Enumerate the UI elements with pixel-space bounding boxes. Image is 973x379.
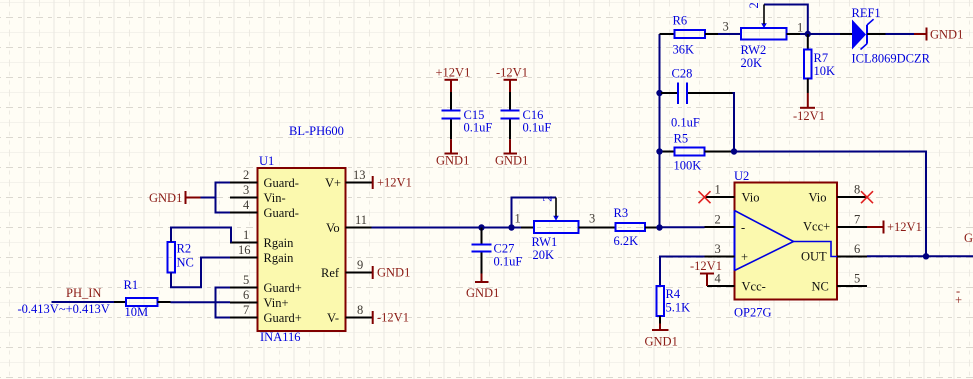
svg-text:2: 2 — [243, 168, 249, 182]
svg-text:3: 3 — [243, 183, 249, 197]
wire PH_IN to R1 — [52, 301, 115, 303]
wire C28 right down to R5 — [688, 92, 733, 94]
svg-text:+: + — [955, 293, 962, 307]
U2 pin 1 Vio — [705, 183, 760, 205]
IC U1 INA116 body — [258, 124, 346, 344]
junction at RW1 loop — [508, 224, 514, 230]
svg-text:-12V1: -12V1 — [496, 66, 528, 80]
U1 pin 4 Guard- — [230, 198, 299, 220]
resistor R2 (NC) — [168, 242, 194, 273]
svg-text:V-: V- — [327, 311, 339, 325]
potentiometer RW2 wiper stem — [763, 5, 765, 25]
capacitor C28 0.1uF — [671, 66, 700, 129]
svg-text:16: 16 — [238, 243, 251, 257]
op-amp U2 OP27G body — [734, 169, 837, 320]
svg-text:6: 6 — [243, 288, 249, 302]
svg-text:Vcc+: Vcc+ — [803, 220, 830, 234]
svg-text:-12V1: -12V1 — [690, 259, 722, 273]
svg-text:4: 4 — [243, 198, 250, 212]
wire feedback vertical — [659, 34, 661, 228]
power port +12V1 at U2 pin 7 — [867, 220, 922, 234]
junction R5/C28 right — [731, 148, 737, 154]
U1 pin 11 Vo — [326, 213, 372, 235]
svg-text:G: G — [964, 231, 973, 245]
U1 pin 3 Vin- — [230, 183, 286, 205]
svg-text:Guard-: Guard- — [264, 206, 299, 220]
power port GND1 below C27 — [466, 274, 499, 301]
power port -12V1 at U1 pin 8 — [373, 311, 409, 325]
U2 pin 6 OUT — [801, 242, 867, 264]
power port GND1 below C15 — [436, 139, 469, 167]
U1 pin 8 V- — [327, 303, 372, 325]
svg-text:20K: 20K — [533, 248, 555, 262]
wire Vo to RW1 — [372, 227, 522, 229]
U2 pin 7 Vcc+ — [803, 213, 867, 234]
power port -12V1 below R7 — [793, 93, 825, 123]
svg-text:BL-PH600: BL-PH600 — [289, 124, 344, 138]
svg-text:Vin-: Vin- — [264, 191, 286, 205]
svg-text:Vcc-: Vcc- — [742, 280, 766, 294]
svg-text:2: 2 — [541, 196, 555, 202]
junction R3 / feedback node — [656, 224, 662, 230]
junction OUT node — [923, 253, 929, 259]
svg-text:R5: R5 — [674, 131, 689, 145]
wire RW2 to REF1 node — [800, 33, 840, 35]
svg-text:GND1: GND1 — [149, 191, 182, 205]
svg-text:7: 7 — [854, 213, 860, 227]
resistor R6 36K — [660, 14, 719, 57]
capacitor C27 0.1uF — [472, 228, 523, 274]
svg-text:1: 1 — [243, 228, 249, 242]
resistor R1 10M — [114, 278, 171, 319]
svg-text:-12V1: -12V1 — [793, 109, 825, 123]
U2 pin 8 Vio — [809, 183, 868, 205]
potentiometer RW1 wiper stem — [555, 198, 557, 217]
svg-text:2: 2 — [715, 213, 721, 227]
U1 pin 1 Rgain — [230, 228, 294, 250]
svg-text:NC: NC — [812, 280, 829, 294]
svg-text:5: 5 — [243, 273, 249, 287]
potentiometer RW2 20K — [741, 2, 804, 70]
svg-text:-0.413V~+0.413V: -0.413V~+0.413V — [18, 302, 110, 316]
svg-text:GND1: GND1 — [645, 335, 678, 349]
svg-text:V+: V+ — [325, 176, 341, 190]
svg-text:13: 13 — [353, 168, 366, 182]
svg-text:GND1: GND1 — [495, 153, 528, 167]
svg-text:36K: 36K — [673, 42, 695, 56]
no-ERC cross U2 pin 8 — [861, 191, 873, 203]
svg-text:0.1uF: 0.1uF — [464, 120, 493, 134]
wire U2 pin3 to R4 — [660, 257, 705, 287]
svg-text:U1: U1 — [259, 154, 274, 168]
junction at C27 — [478, 224, 484, 230]
svg-text:-12V1: -12V1 — [377, 311, 409, 325]
svg-text:0.1uF: 0.1uF — [523, 120, 552, 134]
svg-text:0.1uF: 0.1uF — [671, 115, 700, 129]
svg-text:+12V1: +12V1 — [887, 220, 922, 234]
power port +12V1 above C15 — [436, 66, 471, 93]
svg-text:8: 8 — [357, 303, 363, 317]
wire C28 left — [661, 92, 677, 94]
svg-text:OP27G: OP27G — [734, 306, 772, 320]
wire node to U2 pin 2 — [660, 226, 705, 228]
svg-text:GND1: GND1 — [436, 153, 469, 167]
svg-text:6: 6 — [854, 242, 860, 256]
wire R2 top to pin 1 — [171, 228, 231, 243]
svg-text:+12V1: +12V1 — [377, 176, 412, 190]
U1 pin 6 Vin+ — [230, 288, 289, 310]
U1 pin 7 Guard+ — [230, 303, 302, 325]
svg-text:GND1: GND1 — [930, 28, 963, 42]
wire RW1 wiper loop to pin1 node — [512, 198, 557, 228]
svg-text:Guard+: Guard+ — [264, 311, 302, 325]
svg-text:100K: 100K — [674, 158, 702, 172]
svg-text:ICL8069DCZR: ICL8069DCZR — [852, 52, 931, 66]
svg-text:PH_IN: PH_IN — [66, 286, 101, 300]
svg-text:REF1: REF1 — [852, 6, 881, 20]
power port GND1 below R4 — [645, 324, 678, 349]
svg-text:10M: 10M — [125, 305, 149, 319]
wire RW2 wiper loop to pin1 node — [764, 5, 808, 35]
U1 pin 9 Ref — [321, 258, 372, 280]
svg-text:R7: R7 — [814, 51, 829, 65]
svg-text:Ref: Ref — [321, 266, 340, 280]
svg-text:1: 1 — [515, 212, 521, 226]
power port GND1 left of U1 — [149, 191, 201, 205]
svg-text:C27: C27 — [494, 241, 515, 255]
wire REF1 to GND1 — [886, 33, 915, 35]
svg-text:10K: 10K — [814, 64, 836, 78]
resistor R4 5.1K — [657, 286, 691, 324]
wire C28 right vertical — [733, 93, 735, 152]
svg-text:Vo: Vo — [326, 221, 340, 235]
U1 pin 16 Rgain — [230, 243, 294, 265]
capacitor C16 0.1uF — [501, 92, 552, 139]
svg-text:0.1uF: 0.1uF — [494, 255, 523, 269]
power port GND1 at U1 pin 9 — [373, 266, 411, 280]
svg-text:11: 11 — [355, 213, 367, 227]
svg-text:3: 3 — [715, 242, 721, 256]
svg-text:9: 9 — [357, 258, 363, 272]
svg-text:RW2: RW2 — [741, 43, 767, 57]
svg-text:R2: R2 — [177, 242, 192, 256]
svg-text:R6: R6 — [673, 14, 688, 28]
svg-text:U2: U2 — [734, 169, 749, 183]
wire R1 to pin 6 — [171, 301, 231, 303]
svg-text:1: 1 — [715, 183, 721, 197]
U2 pin 3 + — [705, 242, 749, 264]
wire bracket pins 5,7 — [216, 288, 231, 318]
svg-text:+12V1: +12V1 — [436, 66, 471, 80]
svg-text:Vin+: Vin+ — [264, 296, 289, 310]
svg-text:-: - — [741, 221, 745, 235]
power port -12V1 at U2 pin 4 — [690, 259, 722, 286]
svg-text:8: 8 — [854, 183, 860, 197]
svg-text:OUT: OUT — [801, 250, 827, 264]
svg-text:6.2K: 6.2K — [614, 234, 639, 248]
wire feedback to output — [734, 152, 926, 257]
svg-text:3: 3 — [589, 212, 595, 226]
junction C28 left — [656, 90, 662, 96]
svg-text:NC: NC — [177, 256, 194, 270]
svg-text:5: 5 — [854, 272, 860, 286]
power port GND1 top right — [914, 28, 963, 42]
diode REF1 ICL8069DCZR — [840, 6, 931, 66]
U1 pin 2 Guard- — [230, 168, 299, 190]
svg-text:R1: R1 — [124, 278, 139, 292]
junction RW2/R7/REF1 node — [805, 31, 811, 37]
capacitor C15 0.1uF — [442, 92, 493, 139]
svg-text:INA116: INA116 — [260, 330, 301, 344]
svg-text:+: + — [741, 250, 748, 264]
svg-text:2: 2 — [747, 2, 761, 8]
svg-text:GND1: GND1 — [466, 286, 499, 300]
U2 pin 2 - — [705, 213, 746, 235]
svg-text:Rgain: Rgain — [264, 236, 295, 250]
svg-text:Guard-: Guard- — [264, 176, 299, 190]
potentiometer RW1 20K — [515, 196, 596, 262]
U1 pin 5 Guard+ — [230, 273, 302, 295]
power port GND1 below C16 — [495, 139, 528, 167]
resistor R3 6.2K — [592, 206, 660, 248]
resistor R7 10K — [804, 34, 835, 93]
svg-text:Guard+: Guard+ — [264, 281, 302, 295]
U2 pin 4 Vcc- — [707, 272, 766, 294]
svg-text:4: 4 — [715, 272, 722, 286]
wire R2 bottom to pin 16 — [171, 258, 230, 288]
svg-text:R3: R3 — [614, 206, 629, 220]
svg-text:RW1: RW1 — [532, 235, 558, 249]
no-ERC cross U2 pin 1 — [699, 191, 711, 203]
wire OUT to right edge — [867, 255, 973, 257]
U2 pin 5 NC — [812, 272, 868, 294]
wire bracket pins 2,3,4 to GND1 — [201, 183, 231, 213]
wire R6 to RW2 — [718, 33, 741, 35]
svg-text:1: 1 — [797, 21, 803, 35]
U1 pin 13 V+ — [325, 168, 372, 190]
svg-text:Vio: Vio — [809, 191, 827, 205]
svg-text:GND1: GND1 — [377, 266, 410, 280]
junction R5 left — [656, 148, 662, 154]
svg-text:5.1K: 5.1K — [666, 300, 691, 314]
svg-text:C28: C28 — [672, 66, 693, 80]
power port +12V1 at U1 pin 13 — [373, 176, 412, 190]
resistor R5 100K — [660, 131, 733, 172]
power port -12V1 above C16 — [496, 66, 528, 93]
svg-text:Rgain: Rgain — [264, 251, 295, 265]
svg-text:Vio: Vio — [742, 191, 760, 205]
svg-text:R4: R4 — [666, 287, 681, 301]
svg-text:3: 3 — [723, 20, 729, 34]
svg-text:20K: 20K — [741, 56, 763, 70]
svg-text:7: 7 — [243, 303, 249, 317]
